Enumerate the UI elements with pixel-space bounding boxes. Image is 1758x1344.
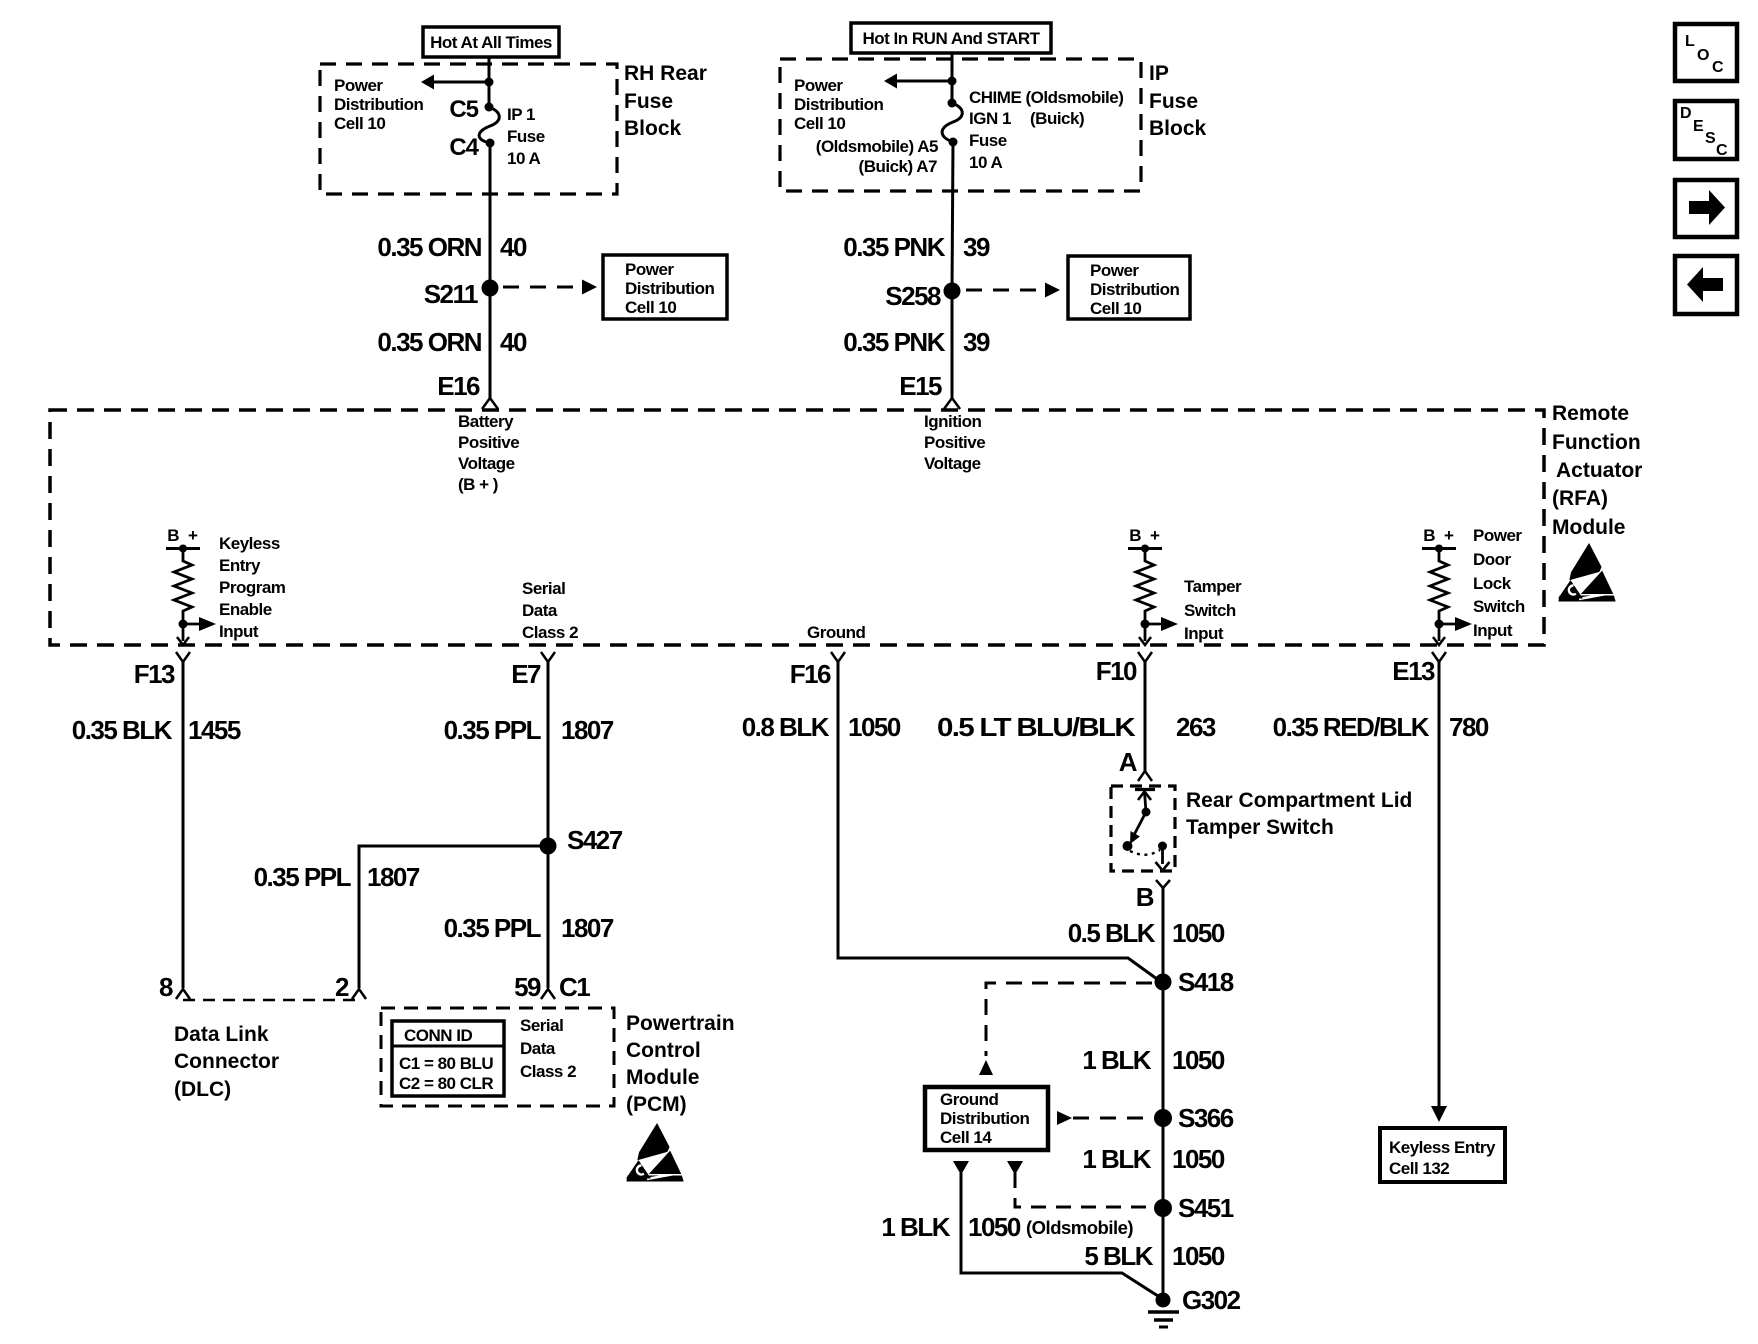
svg-text:S418: S418 [1178,967,1234,997]
svg-text:Positive: Positive [458,433,519,452]
svg-text:Cell 132: Cell 132 [1389,1159,1449,1178]
connector terminal F16 [790,652,845,689]
wire 0.35 ORN 40 from fuse to S211 [377,143,527,288]
reference box Ground Distribution Cell 14 [925,1087,1048,1150]
svg-text:Voltage: Voltage [924,454,981,473]
connector terminal E16 [437,371,498,409]
svg-text:Keyless Entry: Keyless Entry [1389,1138,1496,1157]
svg-text:Door: Door [1473,550,1512,569]
svg-text:Function: Function [1552,431,1641,454]
svg-text:B: B [1423,526,1435,545]
PCM pin 59 C1 terminal [514,972,590,1002]
svg-text:1050: 1050 [1172,1241,1225,1271]
svg-text:1050: 1050 [1172,1144,1225,1174]
wire branch 0.35 PPL 1807 from S427 to DLC pin 2 [254,846,548,988]
svg-text:0.35 PPL: 0.35 PPL [254,862,352,892]
arrow to Power Distribution Cell 10 (IP) [884,74,952,89]
Rear Compartment Lid Tamper Switch dashed boundary [1111,786,1175,871]
svg-text:5 BLK: 5 BLK [1084,1241,1153,1271]
svg-text:IP: IP [1149,62,1169,85]
svg-text:Power: Power [1090,261,1139,280]
svg-text:Positive: Positive [924,433,985,452]
label "Tamper Switch Input" [1184,577,1242,643]
svg-text:1455: 1455 [188,715,241,745]
wire 0.35 RED/BLK 780 from E13 to Keyless Entry [1273,662,1489,1122]
svg-text:40: 40 [500,327,527,357]
label "RH Rear Fuse Block" [624,62,707,140]
svg-text:F16: F16 [790,659,831,689]
svg-text:Remote: Remote [1552,402,1629,425]
svg-text:CONN ID: CONN ID [404,1026,473,1045]
svg-text:(Buick): (Buick) [1030,109,1084,128]
svg-text:C1 = 80 BLU: C1 = 80 BLU [399,1054,493,1073]
svg-text:Ignition: Ignition [924,412,981,431]
splice S451 [1154,1193,1234,1223]
svg-text:Battery: Battery [458,412,514,431]
svg-text:Class 2: Class 2 [520,1062,576,1081]
svg-text:Voltage: Voltage [458,454,515,473]
svg-text:Distribution: Distribution [625,279,714,298]
reference box Power Distribution Cell 10 (S258) [1068,256,1190,319]
Data Link Connector dashed boundary [183,999,359,1002]
connector terminal E13 [1392,652,1446,686]
svg-text:C: C [1712,59,1724,76]
wire 0.35 PNK 39 from fuse to S258 [843,142,990,291]
svg-text:L: L [1685,33,1695,50]
svg-text:263: 263 [1176,712,1216,742]
svg-text:10 A: 10 A [507,149,541,168]
node junction to Power Distribution arrow (IP) [948,77,957,86]
svg-text:0.35 ORN: 0.35 ORN [377,232,481,262]
svg-text:Class 2: Class 2 [522,623,578,642]
svg-text:0.35 PNK: 0.35 PNK [843,327,945,357]
nav button LOC [1675,24,1737,81]
node junction to Power Distribution arrow [485,78,494,87]
svg-text:Ground: Ground [807,623,865,642]
label box "Hot At All Times" [423,27,559,57]
RH Rear Fuse Block dashed boundary [320,64,617,194]
connector terminal E7 [511,652,555,689]
label "Power Distribution Cell 10" (RH rear fuse block) [334,76,423,133]
svg-text:1050: 1050 [1172,1045,1225,1075]
svg-text:10 A: 10 A [969,153,1003,172]
svg-text:Block: Block [1149,117,1207,140]
arrow from Ground Distribution down (solid wire) [953,1161,969,1175]
ESD sensitivity symbol (PCM) [627,1124,685,1181]
svg-text:Rear Compartment Lid: Rear Compartment Lid [1186,789,1412,812]
svg-text:Ground: Ground [940,1090,998,1109]
svg-text:IGN 1: IGN 1 [969,109,1011,128]
svg-text:(B + ): (B + ) [458,475,498,494]
svg-text:0.8 BLK: 0.8 BLK [742,712,830,742]
fuse CHIME/IGN 1 element [942,103,962,142]
wire 0.5 LT BLU/BLK 263 from F10 to tamper switch A [937,662,1216,771]
svg-text:E: E [1693,118,1704,135]
ground G302 [1148,1285,1241,1327]
svg-text:0.35 PPL: 0.35 PPL [444,913,542,943]
tamper switch terminal B [1136,880,1170,912]
nav button forward arrow [1675,180,1737,237]
splice S427 [540,825,623,855]
nav button DESC [1675,101,1737,159]
arrow to Power Distribution Cell 10 [421,75,489,90]
svg-text:8: 8 [159,972,173,1002]
svg-text:1050: 1050 [848,712,901,742]
svg-text:C: C [1716,142,1728,159]
svg-text:(Oldsmobile) A5: (Oldsmobile) A5 [816,137,938,156]
label "Remote Function Actuator (RFA) Module" [1552,402,1642,539]
Powertrain Control Module dashed boundary [381,1008,614,1106]
svg-text:1050: 1050 [968,1212,1021,1242]
svg-text:S: S [1705,130,1716,147]
svg-text:S427: S427 [567,825,623,855]
reference box Keyless Entry Cell 132 [1380,1128,1505,1182]
tamper switch contacts and arm [1123,790,1170,871]
nav button back arrow [1675,256,1737,314]
tamper switch terminal A [1119,747,1152,781]
svg-text:Hot In RUN And START: Hot In RUN And START [863,29,1041,48]
svg-text:C2 = 80 CLR: C2 = 80 CLR [399,1074,493,1093]
fuse CHIME/IGN 1 bottom terminal [949,138,958,147]
resistor B+ pull-up (Tamper Switch Input) [1128,526,1178,645]
label "Ignition Positive Voltage" [924,412,985,473]
svg-text:59: 59 [514,972,541,1002]
svg-text:0.5 LT BLU/BLK: 0.5 LT BLU/BLK [937,712,1136,742]
svg-text:2: 2 [335,972,349,1002]
svg-text:Data Link: Data Link [174,1023,269,1046]
svg-text:Switch: Switch [1184,601,1236,620]
svg-text:Enable: Enable [219,600,272,619]
svg-text:E15: E15 [899,371,942,401]
svg-text:1 BLK: 1 BLK [1082,1144,1151,1174]
dashed reference arrow from Ground Distribution to S366 [1057,1111,1150,1125]
svg-text:(PCM): (PCM) [626,1093,687,1116]
label "Rear Compartment Lid Tamper Switch" [1186,789,1412,839]
svg-text:Distribution: Distribution [794,95,883,114]
svg-text:O: O [1697,47,1709,64]
svg-text:Fuse: Fuse [507,127,545,146]
wire 0.35 BLK 1455 from F13 to DLC pin 8 [72,662,241,988]
svg-text:Cell 10: Cell 10 [625,298,676,317]
arrow from Ground Distribution down (dashed Oldsmobile) [1007,1161,1023,1175]
wire 0.35 ORN 40 from S211 to E16 [377,288,527,398]
svg-text:0.35 PNK: 0.35 PNK [843,232,945,262]
svg-text:Actuator: Actuator [1556,459,1642,482]
svg-text:Hot At All Times: Hot At All Times [430,33,552,52]
label "Powertrain Control Module (PCM)" [626,1012,735,1116]
fuse IP 1 10 A terminal C4 [449,134,494,161]
svg-text:Fuse: Fuse [969,131,1007,150]
svg-text:+: + [1150,526,1160,545]
svg-text:40: 40 [500,232,527,262]
svg-text:Tamper Switch: Tamper Switch [1186,816,1334,839]
label "Battery Positive Voltage (B + )" [458,412,519,494]
dashed reference drop from S418 [979,983,1152,1075]
svg-text:(Buick) A7: (Buick) A7 [859,157,937,176]
fuse IP 1 10 A terminal C5 [449,96,493,123]
svg-text:Module: Module [626,1066,700,1089]
svg-text:S211: S211 [424,279,478,309]
svg-text:Tamper: Tamper [1184,577,1242,596]
svg-text:S451: S451 [1178,1193,1234,1223]
svg-text:F10: F10 [1096,656,1137,686]
IP Fuse Block dashed boundary [780,59,1141,191]
wire 1 BLK 1050 from S366 to S451 [1082,1118,1225,1208]
svg-text:Keyless: Keyless [219,534,280,553]
resistor B+ pull-up (Keyless Entry Program Enable Input) [166,526,216,645]
svg-text:Control: Control [626,1039,701,1062]
svg-text:(DLC): (DLC) [174,1078,231,1101]
label "IP 1 Fuse 10 A" [507,105,545,168]
label "Ground" (RFA pin F16) [807,623,865,642]
svg-text:Fuse: Fuse [1149,90,1198,113]
svg-text:RH Rear: RH Rear [624,62,707,85]
label "Data Link Connector (DLC)" [174,1023,279,1101]
wire 0.5 BLK 1050 from B to S418 [1068,888,1225,982]
svg-text:A: A [1119,747,1138,777]
svg-text:0.35 PPL: 0.35 PPL [444,715,542,745]
svg-text:Input: Input [1184,624,1224,643]
svg-text:+: + [188,526,198,545]
svg-text:Cell 10: Cell 10 [1090,299,1141,318]
svg-text:C5: C5 [449,96,478,123]
svg-text:1807: 1807 [561,913,614,943]
splice S211 [424,279,499,309]
wire 0.35 PPL 1807 from S427 to PCM pin 59 [444,846,614,988]
svg-text:(RFA): (RFA) [1552,487,1608,510]
splice S418 [1155,967,1234,997]
svg-text:Data: Data [520,1039,556,1058]
svg-text:E7: E7 [511,659,541,689]
wire 1 BLK 1050 (Oldsmobile) from Ground Distribution to G302 [881,1173,1158,1296]
DLC pin 2 terminal [335,972,366,1002]
label "Keyless Entry Program Enable Input" [219,534,286,641]
svg-text:C4: C4 [449,134,479,161]
svg-text:Cell 10: Cell 10 [794,114,845,133]
svg-text:39: 39 [963,327,990,357]
ESD sensitivity symbol (RFA) [1559,544,1617,601]
label "Serial Data Class 2" (PCM) [520,1016,576,1081]
wire 5 BLK 1050 from S451 to G302 [1084,1208,1225,1299]
svg-text:Block: Block [624,117,682,140]
svg-text:Distribution: Distribution [940,1109,1029,1128]
svg-text:Power: Power [1473,526,1522,545]
svg-text:1 BLK: 1 BLK [1082,1045,1151,1075]
svg-text:Distribution: Distribution [1090,280,1179,299]
svg-text:S258: S258 [885,281,941,311]
svg-text:1807: 1807 [561,715,614,745]
label "Power Door Lock Switch Input" [1473,526,1525,640]
svg-text:1807: 1807 [367,862,420,892]
label "IP Fuse Block" [1149,62,1207,140]
Remote Function Actuator (RFA) Module dashed boundary [50,410,1544,645]
svg-text:Module: Module [1552,516,1626,539]
svg-text:G302: G302 [1182,1285,1241,1315]
wire 0.35 PPL 1807 from E7 to S427 [444,662,614,846]
svg-text:1 BLK: 1 BLK [881,1212,950,1242]
svg-text:Input: Input [219,622,259,641]
svg-text:Connector: Connector [174,1050,279,1073]
connector terminal E15 [899,371,960,409]
svg-text:Program: Program [219,578,286,597]
svg-text:Powertrain: Powertrain [626,1012,735,1035]
svg-text:Serial: Serial [520,1016,563,1035]
svg-text:Input: Input [1473,621,1513,640]
svg-text:B: B [1136,882,1154,912]
DLC pin 8 terminal [159,972,190,1002]
svg-text:Lock: Lock [1473,574,1512,593]
svg-text:B: B [167,526,179,545]
svg-text:Serial: Serial [522,579,565,598]
fuse CHIME/IGN 1 top terminal [948,99,957,108]
svg-text:CHIME (Oldsmobile): CHIME (Oldsmobile) [969,88,1123,107]
svg-text:(Oldsmobile): (Oldsmobile) [1026,1217,1133,1238]
svg-text:B: B [1129,526,1141,545]
label "CHIME (Oldsmobile) IGN 1 (Buick) Fuse 10 A" [969,88,1123,172]
svg-text:Power: Power [794,76,843,95]
svg-text:E16: E16 [437,371,480,401]
svg-text:Switch: Switch [1473,597,1525,616]
svg-text:0.35 RED/BLK: 0.35 RED/BLK [1273,712,1430,742]
fuse IP 1 10 A element [479,107,499,143]
svg-text:C1: C1 [559,972,590,1002]
wire from Hot In RUN And START to fuse [951,53,954,103]
CONN ID table [392,1021,504,1096]
svg-text:Power: Power [334,76,383,95]
svg-text:+: + [1444,526,1454,545]
dashed reference arrow from S211 [503,280,597,295]
svg-text:Cell 10: Cell 10 [334,114,385,133]
svg-text:Power: Power [625,260,674,279]
splice S258 [885,281,960,311]
reference box Power Distribution Cell 10 (S211) [603,255,727,319]
svg-text:39: 39 [963,232,990,262]
label "Power Distribution Cell 10 (Oldsmobile) A5 (Buick) A7" [794,76,938,176]
svg-text:0.35 ORN: 0.35 ORN [377,327,481,357]
svg-text:Distribution: Distribution [334,95,423,114]
wire 0.8 BLK 1050 from F16 to S418 [742,662,1157,979]
svg-text:Fuse: Fuse [624,90,673,113]
label "Serial Data Class 2" (RFA pin E7) [522,579,578,642]
svg-text:780: 780 [1449,712,1489,742]
connector terminal F10 [1096,652,1152,686]
svg-text:F13: F13 [134,659,175,689]
wire from Hot At All Times to fuse IP 1 [488,57,491,107]
svg-text:0.5 BLK: 0.5 BLK [1068,918,1156,948]
svg-text:S366: S366 [1178,1103,1234,1133]
svg-text:Data: Data [522,601,558,620]
svg-text:D: D [1680,105,1692,122]
dashed wire from Ground Distribution to S451 [1015,1173,1150,1207]
splice S366 [1154,1103,1234,1133]
connector terminal F13 [134,652,190,689]
svg-text:IP 1: IP 1 [507,105,535,124]
svg-text:Cell 14: Cell 14 [940,1128,992,1147]
dashed reference arrow from S258 [966,283,1060,298]
wire 1 BLK 1050 from S418 to S366 [1082,982,1225,1118]
svg-text:E13: E13 [1392,656,1435,686]
label box "Hot In RUN And START" [851,23,1051,53]
svg-text:Entry: Entry [219,556,261,575]
svg-text:1050: 1050 [1172,918,1225,948]
svg-text:0.35 BLK: 0.35 BLK [72,715,173,745]
resistor B+ pull-up (Power Door Lock Switch Input) [1422,526,1472,645]
wire 0.35 PNK 39 from S258 to E15 [843,291,990,398]
